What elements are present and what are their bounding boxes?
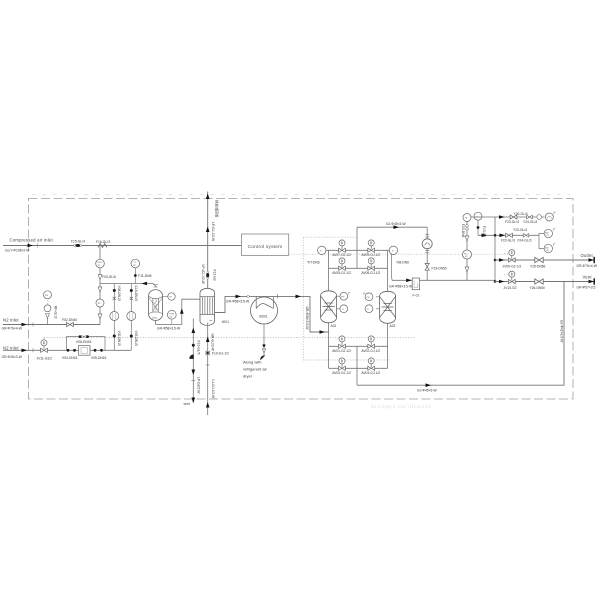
valve F15-GL/4	[74, 244, 82, 247]
regulator chain x=467	[466, 222, 468, 281]
vertical drop line from air line to purge header x=100	[99, 246, 101, 325]
wire: N2 inlet line 2 y=350.3	[3, 349, 131, 351]
svg-text:GJ-Φ42×3.5-W: GJ-Φ42×3.5-W	[560, 320, 564, 343]
svg-text:AV04-GJ-1/2: AV04-GJ-1/2	[361, 371, 380, 375]
blower drain line	[263, 324, 265, 356]
wire: WX1 drain risers	[192, 319, 194, 404]
WF01 instrument circles	[163, 295, 168, 297]
control system box	[242, 234, 289, 255]
valve JV11-G1/2 with actuator	[41, 340, 47, 349]
svg-text:LP-GJ-1/2-W: LP-GJ-1/2-W	[211, 222, 215, 242]
svg-text:V05-DN15: V05-DN15	[91, 356, 107, 360]
svg-text:GR-Φ45×3-W: GR-Φ45×3-W	[2, 355, 23, 359]
svg-text:GR-Φ57×3.5: GR-Φ57×3.5	[577, 286, 596, 290]
valve AV06	[368, 258, 374, 267]
svg-text:A02: A02	[390, 324, 396, 328]
instrument TI circle	[131, 259, 140, 268]
analyzers AI	[539, 234, 544, 249]
svg-text:F23-GL/4: F23-GL/4	[505, 220, 519, 224]
filter F-01	[412, 278, 419, 290]
vessel WX1	[200, 288, 215, 325]
valve AV09	[368, 240, 374, 249]
svg-text:vent: vent	[184, 402, 190, 406]
wire: analysis branch y=235.3	[478, 234, 539, 236]
svg-text:RF-G1/2: RF-G1/2	[54, 306, 58, 319]
svg-text:GJ-Φ45×3-W: GJ-Φ45×3-W	[386, 222, 406, 226]
sample line B x=114.3	[113, 284, 115, 351]
svg-text:AV01-GJ-1/2: AV01-GJ-1/2	[332, 349, 351, 353]
instrument YIT circle	[318, 246, 326, 254]
svg-text:F13-GL/5: F13-GL/5	[197, 341, 201, 355]
svg-text:AV05-GJ-1/2: AV05-GJ-1/2	[332, 271, 351, 275]
svg-text:AV03-GJ-1/2: AV03-GJ-1/2	[332, 371, 351, 375]
svg-text:JV10-G2: JV10-G2	[504, 286, 517, 290]
valve Y26-DN50	[535, 279, 543, 284]
svg-text:V08-DN15: V08-DN15	[117, 286, 121, 302]
svg-text:C16-DN15: C16-DN15	[134, 286, 138, 302]
svg-text:AV07-GJ-1/2: AV07-GJ-1/2	[332, 253, 351, 257]
svg-text:F19-DN50: F19-DN50	[432, 266, 447, 270]
svg-text:AV09-GJ-1/2: AV09-GJ-1/2	[361, 253, 380, 257]
svg-text:F22-GL/3: F22-GL/3	[501, 238, 515, 242]
relief branch on N2 line x=47.5	[47, 318, 49, 325]
svg-text:V06-DN15: V06-DN15	[76, 340, 92, 344]
svg-text:F10-G1-1/2: F10-G1-1/2	[212, 352, 229, 356]
svg-text:JV09-G2-1/2: JV09-G2-1/2	[503, 264, 522, 268]
svg-text:TGM: TGM	[169, 314, 174, 316]
valve AV03	[339, 358, 345, 367]
regulator chain on x=100	[98, 287, 102, 292]
pressure reducer circle	[422, 239, 432, 249]
filter vessel WF01	[149, 285, 163, 321]
wire: silencer branch y=217	[471, 216, 545, 218]
valve AV05	[339, 258, 345, 267]
svg-text:AV06-GJ-1/2: AV06-GJ-1/2	[361, 271, 380, 275]
svg-text:F-01: F-01	[413, 293, 420, 297]
svg-text:Y24-GL/4: Y24-GL/4	[523, 220, 537, 224]
svg-text:GR-Φ76×4-W: GR-Φ76×4-W	[577, 264, 598, 268]
svg-text:dryer: dryer	[243, 373, 253, 378]
svg-text:Vent: Vent	[583, 275, 593, 280]
svg-text:PG: PG	[366, 297, 369, 299]
valve JV09 with actuator	[509, 250, 515, 259]
wire: N2 inlet line 1 y=324.5	[3, 324, 100, 326]
svg-text:F11-DN6: F11-DN6	[138, 274, 151, 278]
valve AV01	[339, 336, 345, 345]
svg-text:PG: PG	[341, 296, 344, 298]
sample line C x=131.3	[130, 284, 132, 351]
wire: product header y=280.3	[392, 279, 495, 281]
svg-text:GL/Y-Φ108×2-W: GL/Y-Φ108×2-W	[5, 249, 30, 253]
wire: WX1 outlet to blower	[215, 296, 251, 312]
wire: WF01 bottom to WX1 inlet	[156, 299, 200, 324]
svg-text:F12-G2: F12-G2	[213, 270, 217, 281]
svg-text:LP-G2-1/2-W: LP-G2-1/2-W	[201, 265, 205, 285]
svg-text:DWC: DWC	[152, 318, 158, 320]
svg-text:PG: PG	[45, 295, 48, 297]
valve F12-G2 ball on riser	[206, 271, 209, 279]
A02 instrument circles	[376, 297, 380, 309]
fitting cone	[98, 275, 102, 280]
instrument YIB circle	[389, 246, 397, 254]
flow meter FM02 assembly with bypass	[67, 337, 106, 351]
wire: outlet branch y=260	[495, 259, 595, 261]
wire: vent branch y=281.5	[495, 281, 595, 283]
svg-text:GR-Φ58×3.5-W: GR-Φ58×3.5-W	[226, 300, 250, 304]
svg-text:GJ-Φ45×3-W: GJ-Φ45×3-W	[417, 389, 437, 393]
svg-text:LP-G2/2-W: LP-G2/2-W	[197, 377, 201, 394]
node: inlet arrow	[28, 244, 34, 248]
svg-text:AV02-GJ-1/2: AV02-GJ-1/2	[361, 349, 380, 353]
wire: regen gas to vent header	[357, 282, 564, 386]
svg-text:L1-GJ-1/2-W: L1-GJ-1/2-W	[211, 380, 215, 400]
svg-text:F15-GL/4: F15-GL/4	[71, 239, 85, 243]
svg-text:M: M	[465, 218, 467, 220]
svg-text:Compressed air inlet: Compressed air inlet	[10, 237, 54, 242]
wire: compressed air inlet line	[3, 245, 242, 247]
sample tap x=478	[477, 220, 479, 235]
valve AV02	[368, 336, 374, 345]
svg-text:Along with: Along with	[243, 359, 261, 364]
valve AV07	[339, 240, 345, 249]
valve JV10 with actuator	[509, 271, 515, 280]
svg-text:YIT-DN6: YIT-DN6	[307, 261, 320, 265]
dashed PSA skid box	[303, 237, 390, 360]
purge header wire y=283.5	[100, 284, 157, 288]
svg-text:GR-Φ58×3.5-W: GR-Φ58×3.5-W	[305, 307, 309, 331]
PSA bottom manifold wires	[328, 323, 330, 368]
svg-text:GR-Φ76×4-W: GR-Φ76×4-W	[2, 326, 23, 330]
svg-text:V03-DN15: V03-DN15	[134, 331, 138, 347]
svg-text:V04-DN15: V04-DN15	[62, 356, 78, 360]
valve F16-GL/3	[98, 244, 107, 248]
svg-text:Y20-GL/4: Y20-GL/4	[514, 212, 528, 216]
svg-text:Y23-GL/4: Y23-GL/4	[513, 228, 527, 232]
svg-text:V02-DN15: V02-DN15	[117, 331, 121, 347]
valve AV04	[368, 358, 374, 367]
riser x=495	[494, 217, 496, 282]
wire: blower outlet to PSA inlet	[250, 296, 328, 332]
wire: product line top y=227.2	[357, 226, 427, 228]
instrument PG circle	[96, 259, 105, 268]
svg-text:F24-GL/3: F24-GL/3	[518, 238, 532, 242]
svg-text:Nitrogen purification: Nitrogen purification	[371, 404, 432, 409]
valve F19-DN50	[425, 263, 429, 270]
wire: riser x=427.2 with F19	[426, 227, 428, 280]
valve F02-DN40 on N2 line	[67, 322, 74, 326]
svg-text:GR-Φ58×3.5-W: GR-Φ58×3.5-W	[157, 327, 181, 331]
svg-text:A01: A01	[331, 324, 337, 328]
valves on analysis branch	[506, 233, 513, 237]
svg-text:N2 inlet: N2 inlet	[3, 317, 19, 322]
svg-text:PIC: PIC	[464, 253, 468, 255]
dashed signal bus from control box	[44, 253, 508, 343]
svg-text:Y26-DN50: Y26-DN50	[530, 286, 546, 290]
svg-text:F20-DN6: F20-DN6	[461, 224, 465, 238]
svg-text:Control system: Control system	[248, 244, 283, 250]
svg-text:N2 inlet: N2 inlet	[3, 345, 19, 350]
TI drop wire	[134, 268, 136, 284]
svg-text:F16-GL/3: F16-GL/3	[96, 240, 110, 244]
svg-text:GR-Φ58×3.5-W: GR-Φ58×3.5-W	[389, 285, 413, 289]
blower BD01	[251, 296, 278, 324]
svg-text:refrigerant air: refrigerant air	[243, 366, 267, 371]
svg-text:PG1: PG1	[97, 262, 102, 264]
svg-text:JV11-G1/2: JV11-G1/2	[37, 356, 53, 360]
svg-text:YIB-DN6: YIB-DN6	[396, 261, 409, 265]
svg-text:BD01: BD01	[259, 315, 267, 319]
PSA top manifold wires	[326, 249, 391, 251]
svg-text:Outlet: Outlet	[581, 253, 594, 258]
svg-text:F03-GL/6: F03-GL/6	[102, 275, 116, 279]
valve Y25-DN65	[535, 257, 543, 262]
package boundary dashed border	[29, 199, 574, 400]
svg-text:排放或回收: 排放或回收	[215, 200, 220, 218]
svg-text:Y25-DN65: Y25-DN65	[530, 264, 546, 268]
svg-text:WX1: WX1	[222, 320, 229, 324]
A01 instrument circles	[337, 296, 340, 309]
adsorber tower A01	[321, 291, 337, 323]
svg-text:F02-DN40: F02-DN40	[62, 318, 77, 322]
adsorber tower A02	[380, 291, 396, 323]
wire: vent riser x=207.7	[207, 192, 209, 291]
svg-text:GR-G1/2-W: GR-G1/2-W	[211, 334, 215, 352]
